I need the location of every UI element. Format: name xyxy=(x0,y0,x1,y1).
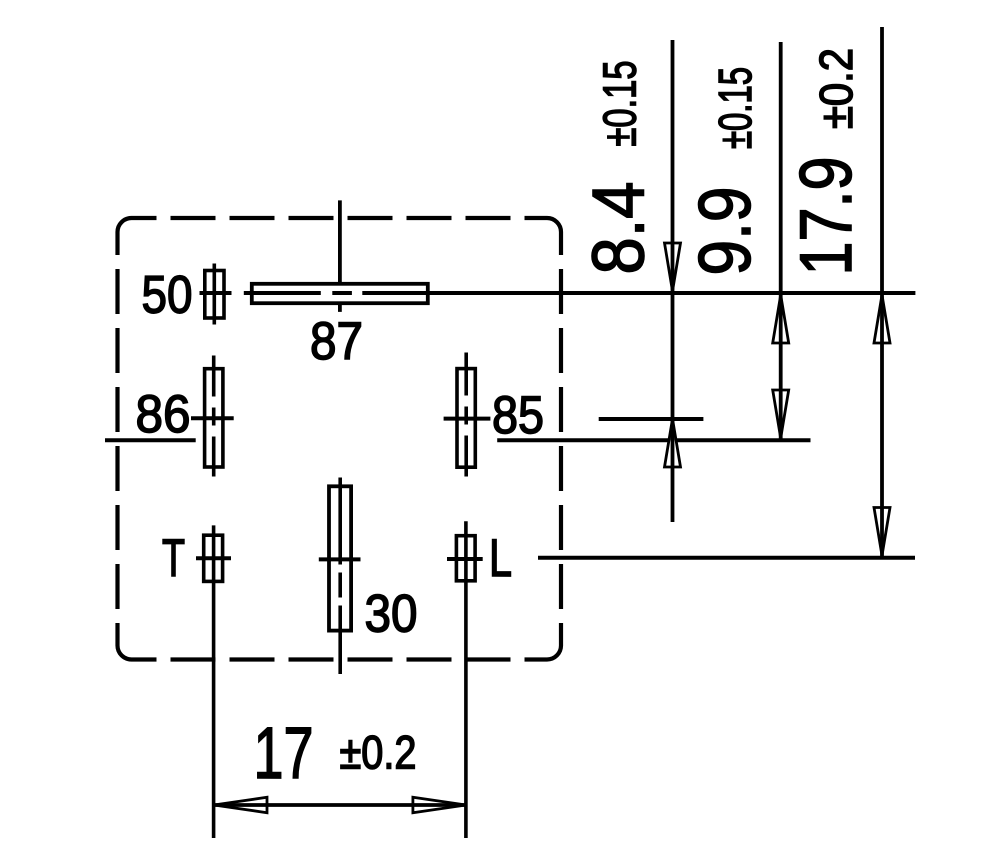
svg-text:9.9: 9.9 xyxy=(685,187,766,276)
dimension 9.9 line xyxy=(779,42,783,440)
dimension 17 line xyxy=(214,803,466,807)
label 86 underline xyxy=(105,438,196,442)
relay body outline: top-left corner arc xyxy=(118,218,132,232)
dimension 17.9 line xyxy=(880,27,884,558)
dimension 8.4: top arrow (down) xyxy=(665,243,681,291)
reference line for 8.4 dimension (85 tick row extension) xyxy=(599,417,704,421)
svg-text:±0.15: ±0.15 xyxy=(709,67,761,149)
relay body outline: top edge (dashed) xyxy=(132,216,548,220)
svg-text:50: 50 xyxy=(141,266,192,325)
dimension 17.9: top arrow (up) xyxy=(874,295,890,343)
pin 86 cross tick xyxy=(191,416,234,420)
dimension 8.4: bottom arrow (up) xyxy=(665,419,681,467)
pin 85 cross tick xyxy=(444,417,491,421)
svg-text:17: 17 xyxy=(253,713,313,794)
dimension 17: left arrow xyxy=(214,797,267,812)
svg-text:±0.2: ±0.2 xyxy=(810,48,862,129)
svg-text:87: 87 xyxy=(310,312,363,371)
pin 85 blade xyxy=(457,369,475,468)
pin 87 blade xyxy=(252,284,428,303)
svg-text:±0.15: ±0.15 xyxy=(594,61,646,147)
pin 50 cross tick xyxy=(200,291,232,295)
dimension 9.9: top arrow (up) xyxy=(773,295,789,343)
svg-text:85: 85 xyxy=(492,386,544,445)
pin 85 centerline (dash-dot) xyxy=(464,353,468,477)
dimension 17: right arrow xyxy=(413,797,466,812)
pin 30 blade xyxy=(329,486,351,630)
pin L centerline / dimension extension line xyxy=(464,521,468,838)
relay body outline: left edge (dashed) xyxy=(115,232,119,646)
svg-text:L: L xyxy=(489,529,512,588)
pin T centerline / dimension extension line xyxy=(212,525,216,838)
pin L blade xyxy=(456,536,475,581)
T/L row line to 17.9 dimension xyxy=(538,556,915,560)
pin 87 vertical centerline xyxy=(338,200,342,312)
pin 87 horizontal centerline / row line to dimension lines xyxy=(244,291,916,295)
pin L cross tick xyxy=(447,557,483,561)
relay body outline: bottom edge (dashed) xyxy=(132,657,548,661)
pin 30 cross tick xyxy=(319,557,361,561)
pin T blade xyxy=(204,535,223,581)
svg-text:±0.2: ±0.2 xyxy=(339,726,416,779)
relay body outline: bottom-right corner arc xyxy=(547,646,561,660)
pin T cross tick xyxy=(196,556,231,560)
svg-text:17.9: 17.9 xyxy=(786,157,867,276)
relay body outline: right edge (dashed) xyxy=(559,232,563,646)
pin 50 centerline xyxy=(213,264,217,325)
relay body outline: top-right corner arc xyxy=(547,218,561,232)
pin 50 blade xyxy=(205,271,224,319)
svg-text:8.4: 8.4 xyxy=(579,182,660,275)
pin 86 centerline (dash-dot) xyxy=(212,356,216,477)
svg-text:T: T xyxy=(162,529,185,588)
label 85 underline extended to 9.9 dimension xyxy=(497,438,810,442)
svg-text:86: 86 xyxy=(135,385,190,444)
dimension 8.4 line xyxy=(671,40,675,522)
svg-text:30: 30 xyxy=(364,585,417,644)
dimension 17.9: bottom arrow (down) xyxy=(874,508,890,556)
pin 86 blade xyxy=(205,369,223,467)
pin 30 centerline (dash-dot) xyxy=(338,478,342,675)
relay body outline: bottom-left corner arc xyxy=(118,646,132,660)
dimension 9.9: bottom arrow (down) xyxy=(773,390,789,438)
